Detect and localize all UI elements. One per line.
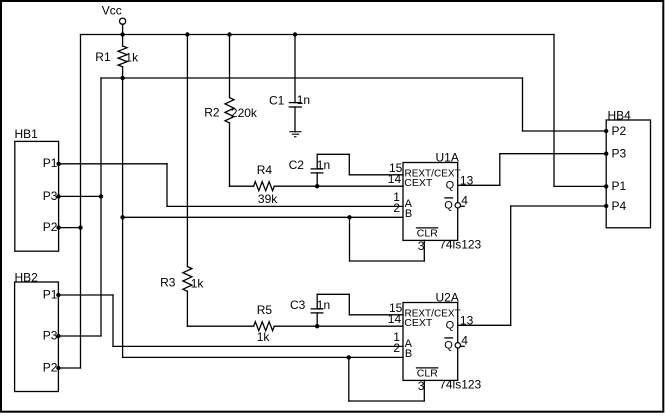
svg-text:Q: Q (444, 339, 453, 351)
svg-text:1n: 1n (317, 298, 330, 312)
svg-text:R5: R5 (257, 303, 273, 317)
svg-text:C3: C3 (290, 298, 306, 312)
svg-text:2: 2 (393, 201, 400, 215)
svg-text:14: 14 (388, 312, 402, 326)
svg-text:Q: Q (444, 199, 453, 211)
svg-text:1k: 1k (257, 330, 271, 344)
svg-text:CLR: CLR (417, 228, 438, 240)
svg-text:13: 13 (460, 174, 474, 188)
svg-text:220k: 220k (231, 106, 258, 120)
svg-text:P1: P1 (43, 156, 58, 170)
svg-text:74ls123: 74ls123 (439, 378, 481, 392)
svg-text:1k: 1k (125, 51, 139, 65)
svg-text:HB4: HB4 (608, 108, 632, 122)
svg-text:1n: 1n (317, 158, 330, 172)
svg-text:R2: R2 (204, 106, 220, 120)
svg-text:2: 2 (393, 341, 400, 355)
svg-text:74ls123: 74ls123 (439, 238, 481, 252)
svg-text:U2A: U2A (436, 290, 459, 304)
svg-text:P3: P3 (43, 189, 58, 203)
svg-text:1n: 1n (297, 93, 310, 107)
svg-text:C1: C1 (269, 94, 285, 108)
svg-text:CEXT: CEXT (404, 177, 433, 189)
svg-text:P1: P1 (43, 288, 58, 302)
svg-text:HB2: HB2 (15, 270, 39, 284)
svg-text:Q: Q (446, 179, 455, 191)
svg-text:14: 14 (388, 172, 402, 186)
svg-text:CLR: CLR (417, 368, 438, 380)
svg-text:39k: 39k (258, 192, 278, 206)
svg-text:4: 4 (461, 193, 468, 207)
svg-text:P1: P1 (612, 179, 627, 193)
svg-text:B: B (405, 348, 412, 360)
svg-text:1k: 1k (191, 277, 205, 291)
svg-text:P2: P2 (43, 361, 58, 375)
svg-text:R3: R3 (160, 276, 176, 290)
svg-text:P4: P4 (612, 199, 627, 213)
svg-text:C2: C2 (289, 158, 305, 172)
svg-text:4: 4 (461, 333, 468, 347)
svg-text:HB1: HB1 (15, 127, 39, 141)
svg-text:P3: P3 (612, 147, 627, 161)
svg-text:B: B (405, 208, 412, 220)
svg-text:Vcc: Vcc (102, 4, 122, 18)
svg-text:U1A: U1A (436, 150, 459, 164)
svg-text:R1: R1 (95, 50, 111, 64)
svg-text:P2: P2 (612, 124, 627, 138)
svg-text:3: 3 (418, 239, 425, 253)
svg-text:13: 13 (460, 314, 474, 328)
svg-text:P3: P3 (43, 329, 58, 343)
svg-text:3: 3 (418, 379, 425, 393)
svg-text:R4: R4 (257, 163, 273, 177)
svg-text:CEXT: CEXT (404, 317, 433, 329)
svg-text:Q: Q (446, 319, 455, 331)
svg-text:P2: P2 (43, 220, 58, 234)
